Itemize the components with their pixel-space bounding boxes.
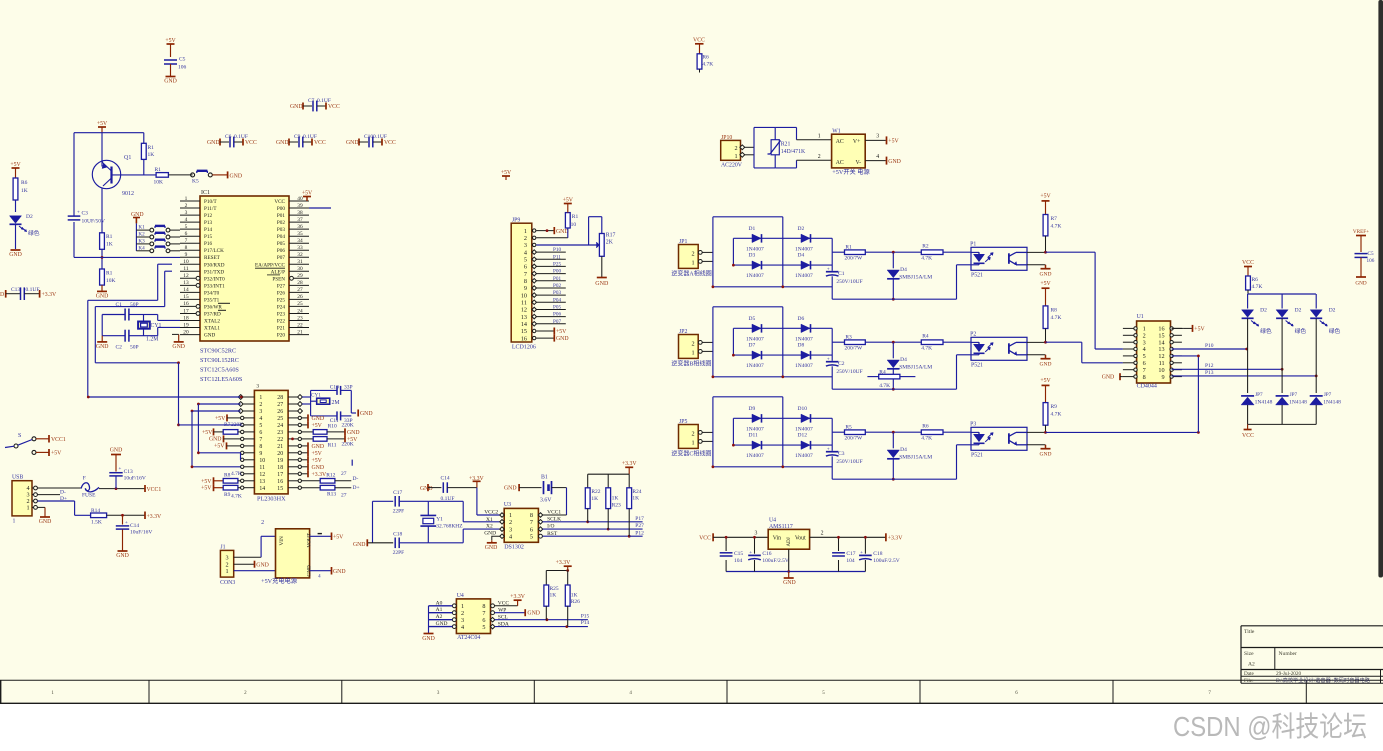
svg-text:32: 32 — [297, 252, 303, 258]
svg-text:24: 24 — [277, 423, 283, 429]
svg-text:1: 1 — [13, 519, 16, 525]
svg-text:+: + — [827, 267, 830, 272]
svg-text:12: 12 — [521, 307, 527, 314]
svg-text:逆变器B相线圈: 逆变器B相线圈 — [671, 360, 711, 368]
svg-text:P31/TXD: P31/TXD — [204, 269, 224, 275]
svg-text:GND: GND — [353, 542, 366, 548]
svg-text:D2: D2 — [1260, 308, 1267, 314]
svg-text:8: 8 — [524, 278, 527, 285]
svg-text:250V/10UF: 250V/10UF — [836, 279, 862, 285]
svg-text:34: 34 — [297, 238, 303, 244]
svg-text:106: 106 — [178, 65, 187, 71]
svg-text:+5V: +5V — [97, 121, 108, 127]
svg-text:W1: W1 — [832, 129, 840, 135]
svg-text:1: 1 — [259, 395, 262, 401]
svg-text:VOUT: VOUT — [307, 532, 313, 547]
svg-text:P17/LCK: P17/LCK — [204, 248, 224, 254]
svg-text:2: 2 — [261, 520, 264, 526]
svg-text:Number: Number — [1279, 651, 1297, 657]
svg-text:VCC1: VCC1 — [51, 437, 66, 443]
svg-text:P04: P04 — [553, 297, 561, 303]
svg-text:6: 6 — [530, 526, 533, 533]
svg-text:GND: GND — [290, 104, 303, 110]
svg-text:+3.3V: +3.3V — [556, 560, 572, 566]
svg-text:7: 7 — [524, 271, 527, 278]
svg-text:P1: P1 — [970, 241, 976, 247]
svg-text:J1: J1 — [220, 545, 225, 551]
svg-text:+5V: +5V — [51, 451, 62, 457]
svg-text:A0: A0 — [436, 600, 443, 606]
svg-text:R12: R12 — [326, 472, 335, 478]
svg-text:C2: C2 — [838, 361, 845, 367]
svg-text:GND: GND — [1040, 271, 1052, 277]
svg-text:C18: C18 — [873, 551, 882, 557]
svg-text:C2: C2 — [116, 345, 123, 351]
svg-text:+5V: +5V — [563, 197, 574, 203]
svg-text:+5V: +5V — [201, 486, 212, 492]
svg-text:17: 17 — [183, 308, 189, 314]
svg-text:220K: 220K — [342, 441, 354, 447]
svg-text:6: 6 — [259, 430, 262, 436]
svg-text:38: 38 — [297, 210, 303, 216]
svg-text:1N4007: 1N4007 — [795, 336, 813, 342]
svg-text:D2: D2 — [1295, 308, 1302, 314]
svg-text:Q1: Q1 — [124, 155, 131, 161]
svg-text:1N4007: 1N4007 — [746, 453, 764, 459]
svg-text:GND: GND — [39, 519, 52, 525]
svg-text:GND: GND — [96, 344, 109, 350]
svg-text:R1: R1 — [572, 214, 579, 220]
svg-text:X1: X1 — [486, 517, 493, 523]
svg-text:1N4007: 1N4007 — [795, 363, 813, 369]
svg-text:SMBJ15A/LM: SMBJ15A/LM — [899, 274, 932, 280]
svg-text:D5: D5 — [749, 316, 756, 322]
svg-text:3: 3 — [755, 531, 758, 537]
svg-text:JP2: JP2 — [679, 329, 687, 335]
svg-text:15: 15 — [183, 294, 189, 300]
svg-text:1N4007: 1N4007 — [746, 273, 764, 279]
svg-text:+: + — [77, 211, 80, 216]
svg-text:Date: Date — [1244, 671, 1254, 677]
svg-text:250V/10UF: 250V/10UF — [836, 369, 862, 375]
svg-text:2: 2 — [185, 203, 188, 209]
svg-text:8: 8 — [259, 444, 262, 450]
svg-text:100uF/2.5V: 100uF/2.5V — [762, 558, 788, 564]
svg-text:GND: GND — [595, 281, 609, 287]
svg-text:2: 2 — [509, 519, 512, 526]
svg-text:+5V: +5V — [888, 139, 899, 145]
svg-text:EA/APP/VCC: EA/APP/VCC — [255, 262, 286, 268]
svg-text:50P: 50P — [130, 302, 139, 308]
svg-text:D2: D2 — [798, 226, 805, 232]
svg-text:P06: P06 — [553, 312, 561, 318]
svg-text:绿色: 绿色 — [1260, 327, 1272, 335]
svg-text:GND: GND — [888, 159, 901, 165]
svg-text:GND: GND — [204, 333, 215, 339]
svg-text:200/7W: 200/7W — [845, 255, 864, 261]
svg-text:R2: R2 — [922, 243, 929, 249]
svg-text:1N4148: 1N4148 — [1323, 400, 1341, 406]
svg-text:18: 18 — [277, 465, 283, 471]
svg-text:RESET: RESET — [204, 255, 221, 261]
svg-text:GND: GND — [485, 545, 498, 551]
svg-text:GND: GND — [556, 336, 569, 342]
svg-text:1K: 1K — [591, 496, 598, 502]
svg-text:STC12LE5A60S: STC12LE5A60S — [200, 376, 243, 383]
svg-text:P01: P01 — [277, 213, 285, 219]
svg-text:GND: GND — [207, 140, 220, 146]
svg-text:R6: R6 — [21, 180, 28, 186]
svg-text:VCC1: VCC1 — [547, 510, 561, 516]
svg-text:D8: D8 — [798, 343, 805, 349]
svg-text:R1: R1 — [148, 145, 155, 151]
svg-text:1: 1 — [26, 504, 29, 511]
svg-text:10: 10 — [521, 292, 527, 299]
svg-text:250V/10UF: 250V/10UF — [836, 459, 862, 465]
svg-text:23: 23 — [277, 430, 283, 436]
svg-text:GND: GND — [360, 411, 373, 417]
svg-text:C1: C1 — [838, 271, 845, 277]
svg-text:AC: AC — [836, 160, 844, 166]
svg-text:绿色: 绿色 — [1295, 327, 1307, 335]
svg-text:D: D — [0, 292, 4, 298]
svg-text:29-Jul-2020: 29-Jul-2020 — [1276, 671, 1301, 677]
svg-text:P11/T: P11/T — [204, 206, 217, 212]
svg-text:Title: Title — [1244, 629, 1255, 635]
svg-text:1: 1 — [524, 228, 527, 235]
svg-text:P3: P3 — [970, 421, 976, 427]
svg-text:200/7W: 200/7W — [845, 345, 864, 351]
svg-text:1N4007: 1N4007 — [795, 426, 813, 432]
svg-text:1K: 1K — [612, 496, 619, 502]
svg-text:33: 33 — [297, 245, 303, 251]
svg-text:13: 13 — [521, 314, 527, 321]
svg-text:P27: P27 — [635, 523, 644, 529]
svg-text:P15: P15 — [204, 234, 212, 240]
svg-text:17: 17 — [277, 472, 283, 478]
svg-text:6: 6 — [185, 231, 188, 237]
svg-text:+5V: +5V — [1040, 378, 1051, 384]
svg-text:0.1UF: 0.1UF — [317, 98, 331, 104]
svg-text:GND: GND — [783, 580, 796, 586]
svg-text:15: 15 — [521, 328, 527, 335]
svg-text:绿色: 绿色 — [28, 229, 40, 237]
svg-text:40: 40 — [297, 196, 303, 202]
svg-text:2K: 2K — [606, 240, 614, 246]
svg-text:B1: B1 — [541, 475, 548, 481]
svg-text:ADJ: ADJ — [787, 537, 792, 546]
svg-text:RST: RST — [547, 531, 558, 537]
svg-text:4.7K: 4.7K — [231, 471, 242, 477]
svg-text:CD4044: CD4044 — [1137, 384, 1157, 390]
svg-text:11: 11 — [259, 465, 265, 471]
svg-text:USB: USB — [12, 475, 23, 481]
svg-text:2: 2 — [818, 154, 821, 160]
svg-text:D7: D7 — [749, 343, 756, 349]
svg-text:22PF: 22PF — [393, 550, 405, 556]
svg-text:A2: A2 — [436, 614, 443, 620]
svg-text:R6: R6 — [1252, 277, 1259, 283]
svg-text:C5: C5 — [179, 57, 186, 63]
svg-text:35: 35 — [297, 231, 303, 237]
svg-text:V-: V- — [856, 160, 862, 166]
svg-text:4: 4 — [524, 249, 527, 256]
svg-text:27: 27 — [341, 493, 347, 499]
svg-text:9012: 9012 — [122, 191, 134, 197]
svg-text:4: 4 — [259, 416, 262, 422]
svg-text:10K: 10K — [106, 278, 116, 284]
svg-text:+5V开关 电源: +5V开关 电源 — [832, 168, 869, 176]
svg-text:D11: D11 — [749, 433, 759, 439]
svg-text:2: 2 — [461, 610, 464, 617]
svg-text:2M: 2M — [332, 400, 340, 406]
svg-text:GND: GND — [110, 448, 123, 454]
svg-text:R6: R6 — [702, 55, 709, 61]
svg-text:4.7K: 4.7K — [1051, 224, 1062, 230]
svg-text:1: 1 — [225, 568, 228, 575]
svg-text:P04: P04 — [277, 234, 285, 240]
svg-text:GND: GND — [230, 173, 243, 179]
svg-text:C9: C9 — [294, 134, 301, 140]
svg-text:D3: D3 — [749, 253, 756, 259]
svg-text:U3: U3 — [504, 502, 511, 508]
svg-text:VCC: VCC — [384, 140, 396, 146]
svg-text:C13: C13 — [11, 287, 20, 293]
svg-text:+: + — [860, 551, 863, 556]
svg-text:12: 12 — [183, 273, 189, 279]
svg-text:Vout: Vout — [795, 536, 806, 542]
svg-text:7: 7 — [482, 610, 485, 617]
svg-text:13: 13 — [259, 479, 265, 485]
svg-text:P32/INT0: P32/INT0 — [204, 276, 225, 282]
svg-text:U4: U4 — [769, 517, 776, 523]
svg-text:C17: C17 — [393, 490, 402, 496]
svg-text:P13: P13 — [204, 220, 212, 226]
svg-text:2: 2 — [691, 340, 694, 347]
svg-text:R11: R11 — [328, 442, 337, 448]
svg-text:R22: R22 — [591, 489, 600, 495]
svg-text:1N4007: 1N4007 — [795, 246, 813, 252]
svg-text:4: 4 — [185, 217, 188, 223]
svg-text:R13: R13 — [327, 492, 336, 498]
svg-text:4.7K: 4.7K — [921, 255, 932, 261]
svg-text:R7: R7 — [1051, 216, 1058, 222]
svg-text:GND: GND — [436, 621, 448, 627]
svg-text:+3.3V: +3.3V — [312, 472, 328, 478]
svg-text:P24: P24 — [277, 304, 285, 310]
svg-text:R17: R17 — [606, 233, 616, 239]
svg-text:+5V: +5V — [165, 38, 176, 44]
svg-text:K5: K5 — [192, 179, 199, 185]
svg-text:5: 5 — [524, 257, 527, 264]
svg-text:P06: P06 — [277, 248, 285, 254]
svg-text:AC: AC — [836, 139, 844, 145]
svg-text:+5V: +5V — [302, 190, 313, 196]
svg-text:2: 2 — [691, 430, 694, 437]
svg-text:R8: R8 — [1051, 308, 1058, 314]
svg-text:C5: C5 — [1368, 251, 1374, 257]
svg-text:P25: P25 — [553, 261, 561, 267]
svg-text:R21: R21 — [781, 141, 791, 147]
svg-text:D2: D2 — [26, 214, 33, 220]
svg-text:6: 6 — [524, 264, 527, 271]
svg-text:+: + — [125, 521, 128, 526]
svg-text:STC12C5A60S: STC12C5A60S — [200, 367, 239, 374]
svg-text:P521: P521 — [971, 452, 983, 458]
svg-text:LCD1206: LCD1206 — [512, 345, 536, 351]
svg-text:0.1UF: 0.1UF — [234, 134, 248, 140]
svg-text:3: 3 — [259, 409, 262, 415]
svg-text:+5V: +5V — [501, 170, 512, 176]
svg-text:+3.3V: +3.3V — [510, 594, 526, 600]
svg-text:D12: D12 — [798, 433, 808, 439]
svg-text:18: 18 — [183, 315, 189, 321]
svg-text:R23: R23 — [612, 502, 621, 508]
svg-text:19: 19 — [183, 322, 189, 328]
svg-text:106: 106 — [1367, 258, 1375, 264]
svg-text:GND: GND — [484, 531, 496, 537]
svg-text:逆变器C相线圈: 逆变器C相线圈 — [671, 450, 711, 458]
svg-text:绿色: 绿色 — [1329, 327, 1341, 335]
svg-text:11: 11 — [521, 300, 527, 307]
svg-text:R7: R7 — [224, 422, 231, 428]
svg-text:27: 27 — [297, 287, 303, 293]
svg-text:VCC1: VCC1 — [147, 487, 162, 493]
svg-text:VCC: VCC — [328, 104, 340, 110]
svg-text:22: 22 — [277, 437, 283, 443]
svg-text:SCLK: SCLK — [547, 516, 561, 522]
svg-text:SMBJ15A/LM: SMBJ15A/LM — [899, 454, 932, 460]
svg-text:ALE/P: ALE/P — [271, 269, 286, 275]
svg-text:VIN: VIN — [279, 536, 285, 545]
svg-text:+5V: +5V — [556, 329, 567, 335]
svg-text:U1: U1 — [1137, 314, 1144, 320]
svg-text:8: 8 — [1143, 374, 1146, 381]
svg-text:C17: C17 — [846, 551, 855, 557]
svg-text:U4: U4 — [457, 593, 464, 599]
svg-text:29: 29 — [297, 273, 303, 279]
svg-text:C14: C14 — [130, 523, 139, 529]
svg-text:CY1: CY1 — [151, 323, 162, 329]
svg-text:4.7K: 4.7K — [1051, 315, 1062, 321]
svg-text:C1: C1 — [116, 302, 123, 308]
svg-text:I/O: I/O — [547, 524, 554, 530]
svg-text:4.7K: 4.7K — [231, 494, 242, 500]
svg-text:P00: P00 — [553, 269, 561, 275]
svg-text:CSDN @科技论坛: CSDN @科技论坛 — [1173, 711, 1367, 742]
svg-text:14: 14 — [259, 486, 265, 492]
svg-text:P03: P03 — [553, 290, 561, 296]
svg-text:P21: P21 — [277, 326, 285, 332]
svg-text:C16: C16 — [762, 551, 771, 557]
svg-text:33P: 33P — [344, 385, 353, 391]
svg-text:+: + — [827, 447, 830, 452]
svg-text:5: 5 — [185, 224, 188, 230]
svg-text:3: 3 — [524, 242, 527, 249]
svg-text:10: 10 — [571, 222, 577, 228]
svg-text:+5V: +5V — [312, 423, 323, 429]
svg-text:C6: C6 — [225, 134, 232, 140]
svg-text:39: 39 — [297, 203, 303, 209]
svg-text:14D/471K: 14D/471K — [781, 149, 806, 155]
svg-text:P521: P521 — [971, 272, 983, 278]
svg-text:4.7K: 4.7K — [702, 62, 713, 68]
svg-text:JP9: JP9 — [512, 218, 520, 224]
svg-text:P16: P16 — [204, 241, 212, 247]
svg-text:3.6V: 3.6V — [540, 498, 552, 504]
svg-text:D4: D4 — [900, 357, 907, 363]
svg-text:JP7: JP7 — [1255, 392, 1263, 398]
svg-text:F: F — [83, 476, 86, 482]
svg-text:+5V: +5V — [201, 479, 212, 485]
svg-text:D4: D4 — [900, 447, 907, 453]
svg-text:1K: 1K — [571, 592, 578, 598]
svg-text:220K: 220K — [231, 422, 243, 428]
svg-text:R9: R9 — [1051, 404, 1058, 410]
svg-text:D-: D- — [60, 490, 66, 496]
svg-text:20: 20 — [183, 329, 189, 335]
svg-text:GND: GND — [96, 294, 109, 300]
svg-text:D4: D4 — [798, 253, 805, 259]
svg-text:10: 10 — [259, 458, 265, 464]
svg-text:D6: D6 — [798, 316, 805, 322]
svg-text:JP7: JP7 — [1324, 392, 1332, 398]
svg-text:1K: 1K — [21, 188, 28, 194]
svg-text:JP10: JP10 — [721, 135, 732, 141]
svg-text:JP5: JP5 — [679, 419, 687, 425]
svg-text:A2: A2 — [1248, 662, 1255, 668]
svg-text:GND: GND — [556, 229, 569, 235]
svg-text:4.7K: 4.7K — [921, 435, 932, 441]
svg-text:VCC: VCC — [699, 536, 711, 542]
svg-text:9: 9 — [1162, 374, 1165, 381]
svg-text:1.2M: 1.2M — [146, 337, 158, 343]
svg-text:+3.3V: +3.3V — [622, 461, 638, 467]
svg-text:27: 27 — [341, 471, 347, 477]
svg-text:P33/INT1: P33/INT1 — [204, 283, 225, 289]
svg-text:IC1: IC1 — [201, 190, 210, 196]
svg-text:GND: GND — [9, 252, 22, 258]
svg-text:PL2303HX: PL2303HX — [257, 496, 286, 503]
svg-text:D1: D1 — [749, 226, 756, 232]
svg-text:20: 20 — [277, 451, 283, 457]
svg-text:GND: GND — [422, 636, 435, 642]
svg-text:P15: P15 — [581, 614, 590, 620]
svg-text:23: 23 — [297, 315, 303, 321]
svg-text:10uF/16V: 10uF/16V — [130, 530, 152, 536]
svg-text:5: 5 — [482, 624, 485, 631]
svg-text:P36/WR: P36/WR — [204, 304, 222, 310]
svg-text:+5V: +5V — [312, 451, 323, 457]
svg-text:SMBJ15A/LM: SMBJ15A/LM — [899, 364, 932, 370]
svg-text:Y1: Y1 — [436, 517, 443, 523]
svg-text:31: 31 — [297, 259, 303, 265]
svg-text:逆变器A相线圈: 逆变器A相线圈 — [671, 270, 711, 278]
svg-text:200/7W: 200/7W — [845, 435, 864, 441]
svg-text:GND: GND — [346, 140, 359, 146]
svg-text:1K: 1K — [632, 496, 639, 502]
svg-text:File:: File: — [1244, 678, 1254, 684]
svg-text:C3: C3 — [838, 451, 845, 457]
svg-text:VREF+: VREF+ — [1353, 229, 1369, 235]
svg-text:VCC: VCC — [245, 140, 257, 146]
svg-text:P10: P10 — [1205, 343, 1214, 349]
svg-text:C3: C3 — [82, 211, 89, 217]
svg-text:P20: P20 — [277, 333, 285, 339]
svg-text:P03: P03 — [277, 227, 285, 233]
svg-text:+3.3V: +3.3V — [147, 514, 163, 520]
svg-text:4: 4 — [876, 154, 879, 160]
